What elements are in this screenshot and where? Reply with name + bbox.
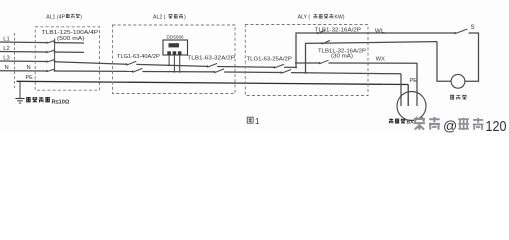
node WX branch junction: [295, 62, 297, 64]
wire WX phase branch: [296, 62, 320, 64]
wire L2 in: [0, 51, 47, 54]
svg-text:1: 1: [255, 117, 260, 126]
svg-text:S: S: [471, 24, 475, 31]
svg-text:PE: PE: [26, 75, 34, 81]
wire L2 stub out: [55, 51, 84, 53]
distribution box AL1 dashed enclosure: [35, 27, 99, 90]
svg-text:AL2 (: AL2 (: [153, 15, 166, 21]
breaker QF1 pole 4 blade: [46, 69, 56, 72]
wire WX phase out: [329, 63, 418, 106]
breaker QF1 pole 2 blade: [46, 50, 56, 53]
wire earth drop: [19, 81, 21, 98]
wire phase QF4 to riser: [284, 66, 296, 68]
wire N feeder out: [55, 70, 133, 72]
box ALY header: [298, 14, 345, 21]
meter lead 3: [179, 55, 181, 73]
wire PE drop to welder: [407, 85, 409, 107]
svg-text:120: 120: [486, 118, 507, 133]
switch box ALY dashed enclosure: [245, 25, 368, 96]
wire L3 in: [0, 60, 47, 63]
svg-text:N: N: [5, 65, 9, 71]
breaker QF1 pole 1 blade: [46, 41, 56, 44]
svg-text:R≤10Ω: R≤10Ω: [52, 99, 70, 105]
wire L1 in: [0, 41, 47, 44]
wire lamp left to WL N: [437, 42, 451, 82]
breaker QF3 phase blade: [206, 63, 217, 67]
svg-text:WX: WX: [376, 57, 385, 63]
wire S to lamp right: [465, 33, 479, 81]
svg-text:DDS666: DDS666: [167, 34, 185, 39]
svg-text:KW): KW): [334, 15, 344, 21]
breaker QF5 phase blade: [317, 30, 326, 34]
node phase riser junction: [295, 66, 297, 68]
svg-text:(30 mA): (30 mA): [331, 54, 353, 60]
svg-text:TLG1-63-25A/2P: TLG1-63-25A/2P: [247, 56, 293, 62]
svg-text:): ): [184, 15, 186, 21]
svg-text:@: @: [443, 117, 457, 133]
kWh meter PJ1: [163, 40, 188, 55]
svg-text:TLB1-63-32A/2P: TLB1-63-32A/2P: [187, 55, 235, 61]
figure caption 图1: [247, 117, 260, 126]
breaker QF2 N blade: [132, 68, 143, 72]
distribution box AL2 dashed enclosure: [113, 25, 236, 94]
svg-text:PE: PE: [410, 78, 418, 84]
wire N drop to welder: [400, 74, 402, 106]
svg-text:ALY (: ALY (: [298, 15, 311, 21]
wire N riser to WL N: [306, 42, 438, 73]
wire phase riser to WL: [296, 33, 455, 67]
breaker QF1 pole 3 blade: [46, 60, 56, 63]
svg-text:AL1 (4P: AL1 (4P: [46, 15, 65, 21]
box AL2 header: [153, 14, 186, 21]
lamp EL1 circle: [451, 74, 465, 88]
meter lead 1: [168, 55, 170, 66]
wire N QF3 to QF4: [224, 71, 281, 74]
ground note 重复接地: [26, 97, 70, 105]
lamp EL1 name label: [450, 95, 467, 100]
wire phase QF2 to meter: [136, 64, 207, 66]
svg-text:TLG1-63-40A/2P: TLG1-63-40A/2P: [117, 54, 160, 60]
wire N in: [0, 70, 47, 72]
wire L1 stub out: [55, 42, 84, 44]
supply boundary dashed line: [14, 33, 16, 88]
wire phase QF3 to QF4: [217, 66, 274, 69]
wire phase feeder L3 out: [55, 62, 127, 65]
svg-text:N: N: [27, 65, 31, 71]
wire PE main: [17, 81, 409, 84]
welder M1 name label: [389, 118, 416, 125]
breaker QF5 N blade: [321, 40, 330, 44]
watermark 头条@节能120: [414, 117, 507, 135]
svg-text:(500 mA): (500 mA): [57, 36, 85, 42]
svg-text:): ): [80, 15, 82, 21]
svg-text:WL: WL: [375, 29, 386, 35]
breaker QF4 N blade: [280, 70, 291, 74]
breaker QF2 phase blade: [126, 61, 137, 65]
breaker QF4 phase blade: [273, 64, 284, 68]
breaker QF1 linkage tie: [54, 38, 56, 70]
box AL1 header: [46, 14, 82, 21]
node N riser junction: [305, 72, 307, 74]
switch S blade: [454, 29, 468, 34]
breaker QF3 N blade: [213, 69, 224, 73]
wire N main run to welder drop: [291, 73, 401, 74]
ground electrode symbol: [15, 99, 24, 104]
wire N QF2 to QF3: [142, 71, 214, 73]
welder M1 circle: [397, 92, 426, 121]
svg-text:TLB1-32-16A/2P: TLB1-32-16A/2P: [315, 27, 362, 33]
breaker QF6 phase blade: [319, 60, 329, 64]
meter lead 2: [173, 55, 175, 73]
